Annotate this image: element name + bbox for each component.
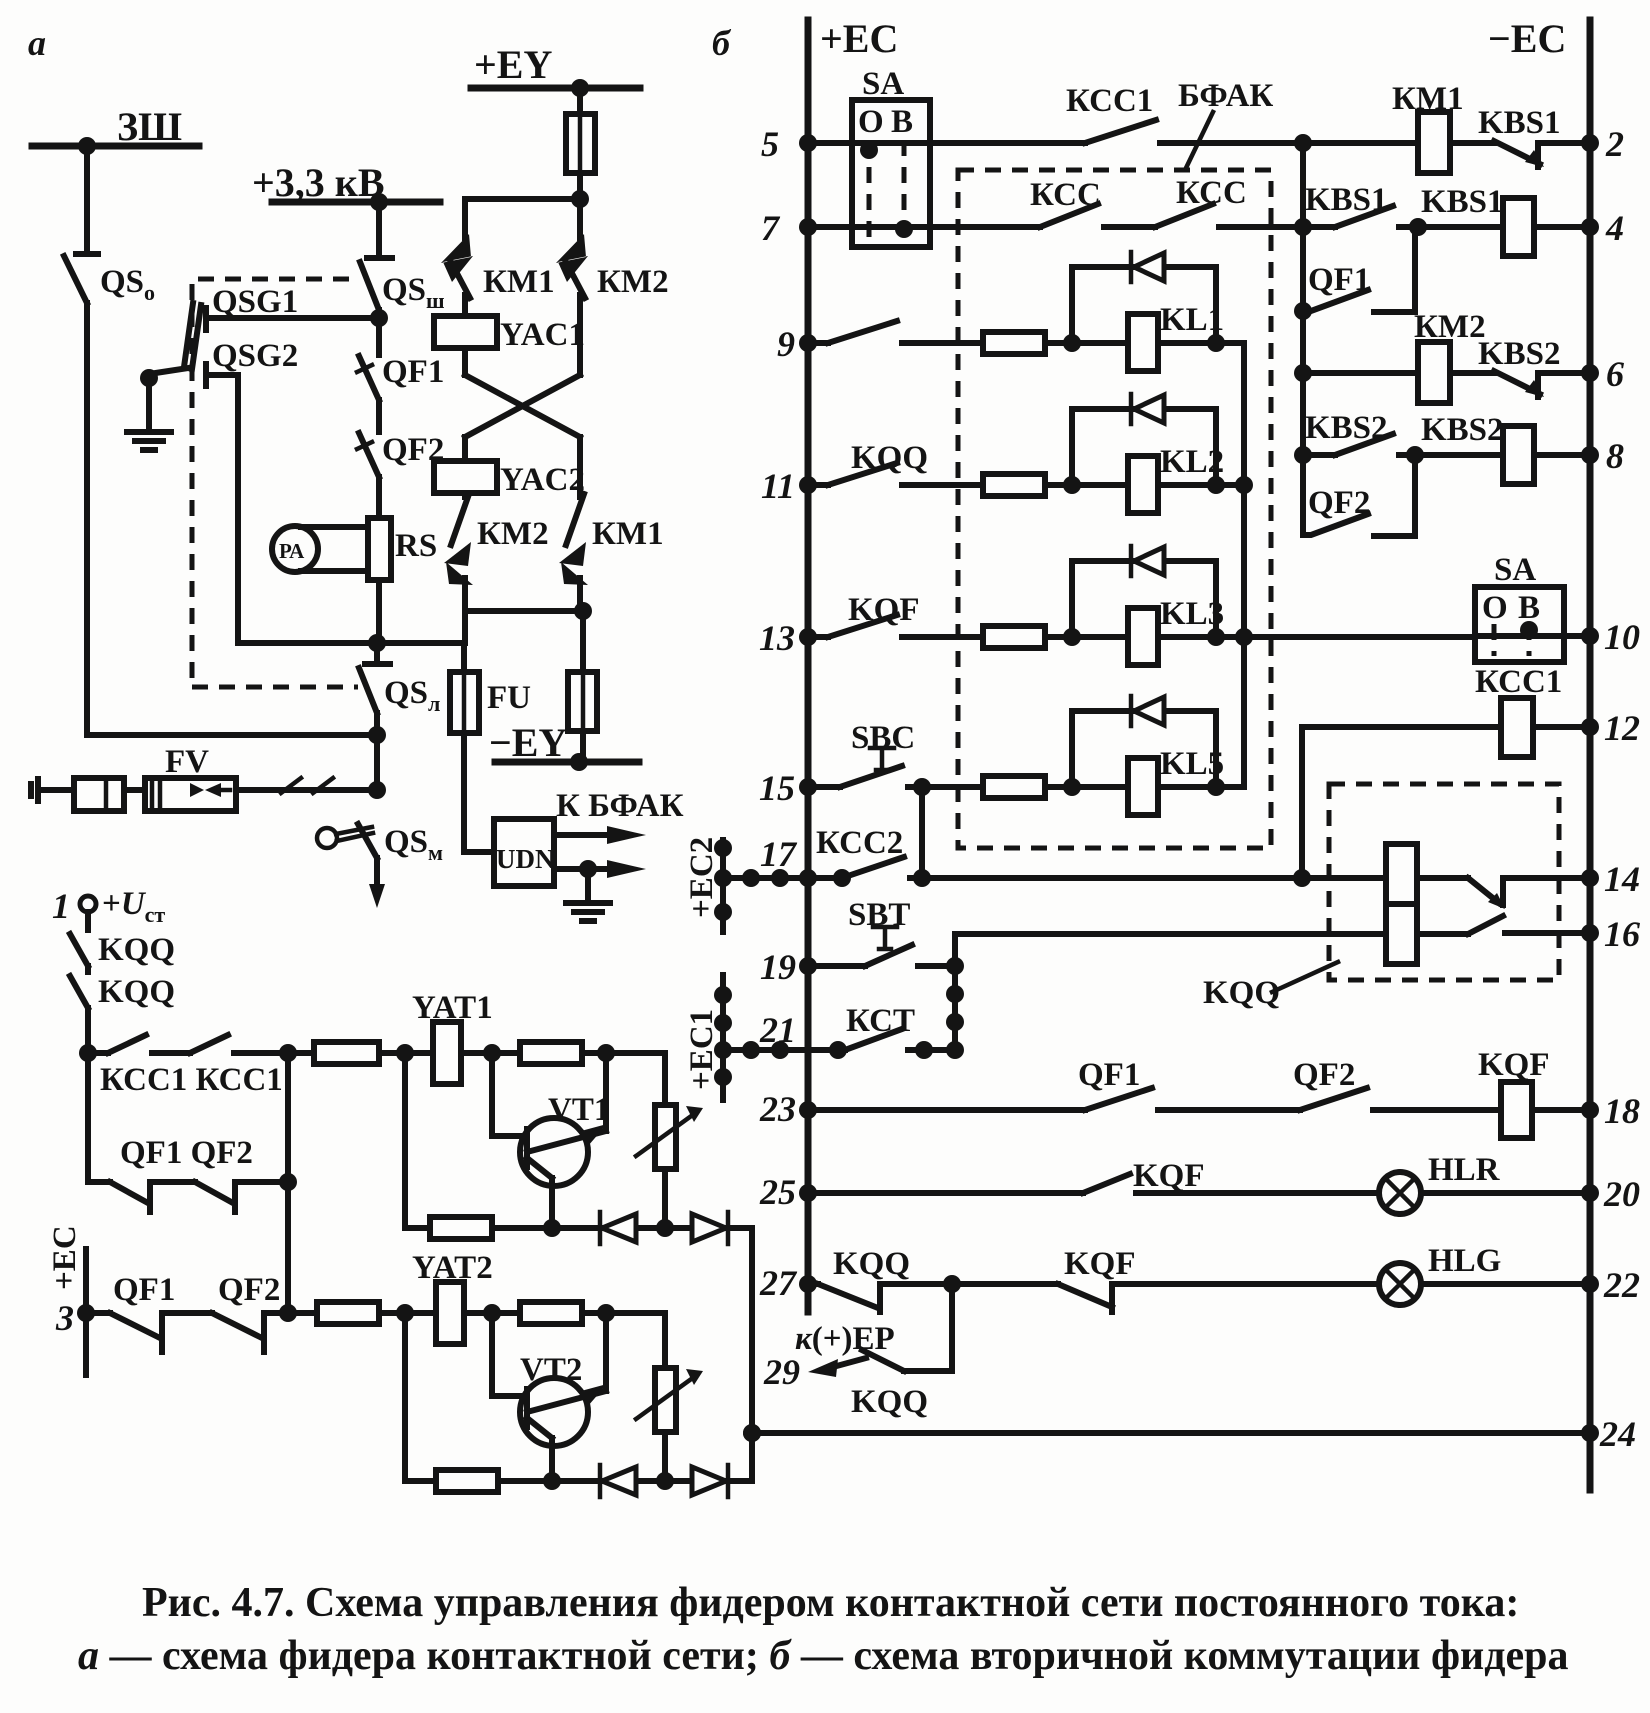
wire cross X (465, 348, 580, 437)
svg-text:14: 14 (1604, 859, 1640, 899)
svg-text:3: 3 (55, 1298, 74, 1338)
svg-text:KBS1: KBS1 (1305, 182, 1388, 218)
switch SA (lower) box (1475, 587, 1564, 662)
svg-text:QF1: QF1 (382, 354, 444, 390)
svg-text:+ЕС: +ЕС (47, 1225, 83, 1290)
contact KM2 bottom (451, 493, 469, 611)
svg-text:В: В (891, 104, 913, 140)
diode VD2a (692, 1214, 726, 1242)
earthing switch QSG1 (206, 308, 379, 330)
svg-text:КСС1 КСС1: КСС1 КСС1 (100, 1062, 283, 1098)
svg-text:16: 16 (1604, 914, 1640, 954)
diode VD2b (692, 1467, 726, 1495)
svg-text:QF2: QF2 (1308, 485, 1370, 521)
svg-text:QF1: QF1 (113, 1272, 175, 1308)
spark gap ticks (281, 778, 333, 793)
resistor R2a (520, 1042, 582, 1064)
switch SA (upper) box (852, 100, 930, 247)
wire right riser A (749, 1228, 755, 1481)
resistor R rung9 (983, 332, 1045, 354)
resistor R rung13 (983, 626, 1045, 648)
coil KM2 (1418, 342, 1450, 403)
resistor R3a (430, 1217, 492, 1239)
svg-text:QSG1: QSG1 (212, 284, 298, 320)
svg-text:+EY: +EY (474, 42, 552, 87)
contact KM1 top arc arrow (441, 234, 473, 282)
svg-text:QF1 QF2: QF1 QF2 (120, 1135, 253, 1171)
arrester FV box1 (74, 778, 124, 811)
ammeter PA (272, 526, 318, 572)
svg-text:К БФАК: К БФАК (556, 788, 684, 824)
wire lamp27 to bus (1421, 1281, 1590, 1287)
contact KCC1 (rungA 2) (190, 1035, 288, 1053)
relay KQQ polarized box dashed (1329, 784, 1559, 980)
disconnector QSo (64, 146, 98, 735)
contact KCC1 rung5 (1085, 120, 1303, 143)
shunt RS (368, 518, 391, 580)
lamp HLR (1379, 1172, 1421, 1214)
svg-text:к(+)ЕР: к(+)ЕР (795, 1321, 895, 1357)
diode VD1a (598, 1212, 603, 1244)
svg-text:20: 20 (1603, 1174, 1640, 1214)
coil YAC2 (462, 437, 468, 461)
wire rung25 (808, 1190, 1083, 1196)
mechanical link dashed (192, 279, 358, 687)
wire rung12 (1302, 724, 1501, 730)
wire rung15 (1045, 784, 1244, 790)
contact KCC2 rung17 (842, 857, 1386, 878)
coil KCC1 (1501, 698, 1533, 757)
svg-text:SA: SA (862, 66, 904, 102)
breaker QF1 feeder (359, 318, 379, 432)
bus ZSh (32, 143, 199, 150)
svg-text:29: 29 (763, 1352, 800, 1392)
svg-text:11: 11 (761, 466, 795, 506)
contact QF1 (rungC) (86, 1313, 212, 1352)
wire rung5 to coil (1303, 140, 1418, 146)
svg-text:а — схема фидера контактной се: а — схема фидера контактной сети; б — сх… (78, 1633, 1568, 1679)
svg-text:YAC2: YAC2 (500, 462, 585, 498)
svg-text:KBS2: KBS2 (1478, 336, 1561, 372)
contact KM1 bottom (566, 437, 584, 611)
contact KCC rung7 (1) (1040, 204, 1155, 227)
svg-text:HLR: HLR (1428, 1152, 1501, 1188)
coil YAC1 (434, 316, 497, 348)
wire rung8 to coil (1415, 452, 1503, 458)
contact KQQ v1 (70, 912, 88, 972)
wire rung4 to coil (1418, 224, 1503, 230)
svg-text:QF2: QF2 (1293, 1057, 1355, 1093)
svg-text:КСС: КСС (1030, 177, 1101, 213)
svg-text:KQF: KQF (1133, 1158, 1205, 1194)
coil KL2 (1128, 456, 1158, 513)
svg-text:КМ2: КМ2 (597, 264, 669, 300)
svg-text:9: 9 (777, 324, 795, 364)
svg-text:+Uст: +Uст (102, 886, 165, 927)
diode VD1b (598, 1465, 603, 1497)
svg-text:КСС2: КСС2 (816, 825, 903, 861)
svg-text:KQF: KQF (1478, 1047, 1550, 1083)
earthing blades (184, 303, 201, 369)
lamp HLG (1379, 1263, 1421, 1305)
wire junction643 (238, 640, 465, 646)
wire rung17 (723, 875, 842, 881)
wire BFAK pointer (1186, 112, 1213, 168)
svg-text:QSш: QSш (382, 272, 445, 313)
svg-text:KQQ: KQQ (98, 932, 175, 968)
contact KCC1 (rungA 1) (88, 1035, 190, 1053)
svg-text:UDN: UDN (496, 844, 555, 874)
node 16 (1581, 924, 1599, 942)
contact KBS2 NC rung6 (1450, 371, 1590, 397)
node 24 (1581, 1424, 1599, 1442)
svg-text:VT2: VT2 (520, 1352, 582, 1388)
contact KM2 top arc arrow (556, 234, 588, 282)
wire coil12 to bus (1533, 724, 1590, 730)
box BFAK dashed (958, 170, 1271, 848)
fuse FU2 (-EY) (580, 611, 586, 762)
svg-text:27: 27 (759, 1263, 798, 1303)
wire rung29 branch (904, 1284, 952, 1371)
svg-text:−ЕС: −ЕС (1488, 16, 1566, 61)
contact KQF (rung13) (808, 615, 983, 637)
wire SBC junction down (919, 787, 925, 878)
svg-text:19: 19 (760, 947, 796, 987)
node 25 (799, 1184, 817, 1202)
wire rung5 left (808, 140, 1085, 146)
wire rung12 down to rung14 (1299, 727, 1305, 878)
wire bottom line A (405, 1053, 430, 1228)
svg-text:QF2: QF2 (218, 1272, 280, 1308)
wire line24 (752, 1430, 1590, 1436)
node 11 (799, 476, 817, 494)
svg-text:SBT: SBT (848, 897, 910, 933)
contact KQF NC rung27 (952, 1284, 1379, 1312)
svg-text:22: 22 (1603, 1265, 1640, 1305)
svg-text:YAT2: YAT2 (412, 1250, 493, 1286)
svg-text:KBS1: KBS1 (1478, 105, 1561, 141)
svg-text:+ЕС: +ЕС (820, 16, 898, 61)
wire FV line (40, 787, 377, 793)
svg-text:SBC: SBC (851, 720, 915, 756)
contact QF1 rung23 (1085, 1088, 1300, 1110)
disconnector QSl (359, 643, 390, 790)
svg-text:7: 7 (761, 208, 781, 248)
node 10 (1581, 627, 1599, 645)
contact QF1 (rungB) (88, 1182, 195, 1212)
svg-text:РА: РА (279, 539, 305, 563)
wire bottom line B (405, 1313, 436, 1481)
svg-text:HLG: HLG (1428, 1243, 1501, 1279)
resistor R1b (288, 1310, 317, 1316)
svg-text:О: О (858, 104, 884, 140)
resistor R1a (288, 1050, 314, 1056)
button SBC (rung15) (808, 766, 983, 787)
node 20 (1581, 1184, 1599, 1202)
coil YAT1 (433, 1022, 461, 1084)
terminal 3 (83, 1249, 89, 1375)
contact KQQ rung29 (862, 1350, 904, 1371)
svg-text:КМ1: КМ1 (592, 516, 664, 552)
wire rung11 (1045, 482, 1244, 488)
svg-text:ЗШ: ЗШ (117, 104, 182, 149)
wire 19 junction riser (955, 934, 1386, 1050)
svg-text:17: 17 (760, 834, 798, 874)
svg-text:а: а (28, 23, 46, 63)
svg-text:КМ2: КМ2 (1414, 309, 1486, 345)
svg-text:21: 21 (759, 1010, 796, 1050)
contact (rung9) (808, 321, 983, 343)
bus +EC (left vertical) (805, 20, 812, 1312)
svg-text:18: 18 (1604, 1091, 1640, 1131)
svg-text:24: 24 (1599, 1414, 1636, 1454)
node 12 (1581, 718, 1599, 736)
resistor R rung11 (983, 474, 1045, 496)
svg-text:5: 5 (761, 124, 779, 164)
svg-text:VT1: VT1 (548, 1092, 610, 1128)
wire rung9 (1045, 340, 1244, 346)
diode VD1 bypass (1072, 267, 1216, 343)
wire coil23 to bus (1532, 1107, 1590, 1113)
contact KQQ NC rung27 (808, 1284, 952, 1312)
contact KBS2 NO rung8 (1335, 434, 1415, 455)
svg-text:КМ2: КМ2 (477, 516, 549, 552)
svg-text:БФАК: БФАК (1178, 78, 1273, 114)
wire rung4 (1303, 224, 1335, 230)
contact KBS1 NC rung2 (1494, 141, 1590, 167)
ground UDN (566, 869, 610, 921)
svg-text:QSо: QSо (100, 264, 155, 305)
svg-text:YAC1: YAC1 (500, 317, 585, 353)
wire KM1 coil to KBS1 (1450, 140, 1494, 146)
wire rung6 (1303, 370, 1418, 376)
contact QF2 rung23 (1300, 1088, 1501, 1110)
node 2 (1581, 134, 1599, 152)
svg-text:О: О (1482, 590, 1508, 626)
svg-text:4: 4 (1605, 208, 1624, 248)
node 27 (799, 1275, 817, 1293)
svg-text:25: 25 (759, 1172, 796, 1212)
diode VD2 bypass (1072, 409, 1216, 485)
svg-text:KQF: KQF (848, 592, 920, 628)
svg-text:1: 1 (52, 886, 70, 926)
node 5 (799, 134, 817, 152)
svg-text:−EY: −EY (489, 720, 567, 765)
varistor RU1 (662, 1053, 668, 1228)
svg-text:8: 8 (1606, 436, 1624, 476)
transistor VT1 (520, 1118, 588, 1186)
svg-text:КСС1: КСС1 (1475, 664, 1562, 700)
svg-text:KBS1: KBS1 (1421, 184, 1504, 220)
resistor R rung15 (983, 776, 1045, 798)
svg-text:23: 23 (759, 1089, 796, 1129)
coil KL5 (1128, 758, 1158, 815)
bus +3.3kV (272, 199, 440, 206)
contact KQQ v2 (70, 976, 88, 1182)
svg-text:YAT1: YAT1 (412, 990, 493, 1026)
node 15 (799, 778, 817, 796)
node +EC2 stub (720, 840, 726, 932)
resistor R3b (436, 1470, 498, 1492)
svg-text:QSм: QSм (384, 824, 443, 865)
contact KCC rung7 (2) (1155, 204, 1303, 227)
svg-text:КСТ: КСТ (846, 1003, 915, 1039)
svg-text:KQQ: KQQ (1203, 975, 1280, 1011)
coil KM1 (1418, 112, 1450, 173)
coil YAT2 (436, 1282, 464, 1344)
contact KQF rung25 (1083, 1174, 1379, 1193)
svg-text:KQQ: KQQ (833, 1246, 910, 1282)
wire rung13 (1045, 634, 1475, 640)
svg-text:13: 13 (759, 618, 795, 658)
coil KBS1 (1503, 198, 1534, 256)
diode VD5 bypass (1072, 711, 1216, 787)
wire rung8 (1303, 452, 1335, 458)
svg-text:КСС1: КСС1 (1066, 83, 1153, 119)
wire rung7 (808, 224, 1040, 230)
svg-text:KQQ: KQQ (851, 440, 928, 476)
coil KL1 (1128, 314, 1158, 371)
varistor RU2 (662, 1313, 668, 1481)
wire lamp25 to bus (1421, 1190, 1590, 1196)
svg-text:KQQ: KQQ (98, 974, 175, 1010)
node 14 (1581, 869, 1599, 887)
svg-text:QF1: QF1 (1308, 262, 1370, 298)
contact KQQ (rung11) (808, 463, 983, 485)
svg-text:КСС: КСС (1176, 175, 1247, 211)
node 8 (1581, 446, 1599, 464)
svg-text:12: 12 (1604, 708, 1640, 748)
node 7 (799, 218, 817, 236)
breaker QF2 feeder (359, 433, 379, 518)
node 23 (799, 1101, 817, 1119)
svg-text:RS: RS (395, 528, 437, 564)
relay KQQ contact block (1386, 844, 1417, 904)
wire UDN out2 (554, 866, 612, 872)
node 29 arrow (822, 1358, 866, 1370)
transistor VT2 (520, 1378, 588, 1446)
svg-text:2: 2 (1605, 124, 1624, 164)
contact QF2 (rungB) (195, 1182, 288, 1212)
disconnector QSsh (360, 202, 392, 318)
svg-text:6: 6 (1606, 354, 1624, 394)
contact KCT rung21 (845, 1029, 955, 1050)
contact KBS1 NO rung4 (1335, 206, 1418, 227)
wire KM bottoms join (465, 611, 583, 643)
node 19 (799, 957, 817, 975)
svg-text:б: б (712, 23, 732, 63)
wire coil8 to bus (1534, 452, 1590, 458)
svg-text:КМ1: КМ1 (1392, 81, 1464, 117)
svg-text:10: 10 (1604, 617, 1640, 657)
wire rung21 (723, 1047, 845, 1053)
svg-text:КМ1: КМ1 (483, 264, 555, 300)
svg-text:FV: FV (165, 744, 209, 780)
svg-text:+ЕС2: +ЕС2 (684, 837, 720, 918)
block UDN (494, 819, 554, 886)
coil KQF (1501, 1082, 1532, 1138)
svg-text:KBS2: KBS2 (1421, 412, 1504, 448)
wire coil to bus (1534, 224, 1590, 230)
contact QF1 aux (1303, 227, 1415, 312)
wire sub-bus right (1300, 143, 1306, 535)
node 22 (1581, 1275, 1599, 1293)
diode VD3 bypass (1072, 561, 1216, 637)
node 6 (1581, 364, 1599, 382)
svg-text:+ЕС1: +ЕС1 (684, 1009, 720, 1090)
contact KQQ changeover (1417, 878, 1590, 905)
svg-text:KBS2: KBS2 (1305, 410, 1388, 446)
disconnector QSm (317, 828, 337, 848)
bus -EC (right vertical) (1587, 20, 1594, 1490)
wire KL common vertical (1241, 343, 1247, 787)
wire rung23 (808, 1107, 1085, 1113)
svg-text:QF1: QF1 (1078, 1057, 1140, 1093)
bus +EY (471, 85, 640, 92)
node 13 (799, 628, 817, 646)
node 4 (1581, 218, 1599, 236)
svg-text:Рис. 4.7. Схема управления фид: Рис. 4.7. Схема управления фидером конта… (142, 1580, 1519, 1626)
ground (127, 432, 171, 450)
svg-text:QSл: QSл (384, 675, 440, 716)
bus -EY (495, 759, 639, 766)
svg-text:SA: SA (1494, 552, 1536, 588)
node +EC1 stub (720, 975, 726, 1100)
contact QF2 aux (1303, 455, 1415, 536)
svg-text:QSG2: QSG2 (212, 338, 298, 374)
wire rung10 (1475, 633, 1590, 639)
wire feeder bottom horizontal (87, 732, 377, 738)
svg-text:KQQ: KQQ (851, 1384, 928, 1420)
arrester FV box2 (145, 778, 236, 811)
node 18 (1581, 1101, 1599, 1119)
resistor R2b (520, 1302, 582, 1324)
coil KL3 (1128, 608, 1158, 665)
svg-text:В: В (1518, 590, 1540, 626)
svg-text:KQF: KQF (1064, 1246, 1136, 1282)
fuse FU1 (+EY) (577, 88, 583, 199)
fuse FU (464, 643, 494, 852)
svg-text:+3,3 кВ: +3,3 кВ (252, 160, 385, 205)
coil KBS2 (1503, 426, 1534, 484)
button SBT (rung19) (808, 945, 955, 966)
node 9 (799, 334, 817, 352)
wire parallel join (285, 1053, 291, 1313)
svg-text:15: 15 (759, 768, 795, 808)
svg-text:FU: FU (487, 680, 531, 716)
contact QF2 (rungC) (212, 1313, 288, 1352)
wire EY split (465, 199, 580, 238)
earthing switch QSG2 (206, 364, 238, 643)
